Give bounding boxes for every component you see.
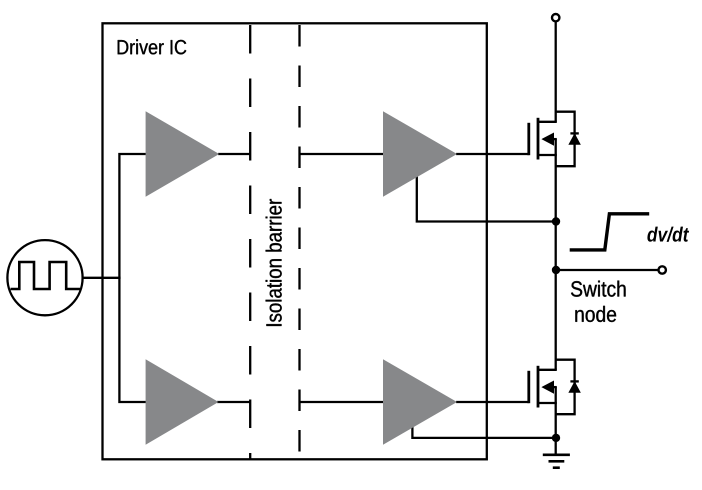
transistor Q1 (high-side MOSFET) bbox=[529, 112, 580, 167]
node: switch node junction dot bbox=[552, 266, 560, 274]
wire buffer D output to Q2 gate bbox=[456, 401, 529, 403]
wire switch node output bbox=[556, 269, 658, 271]
signal source circle bbox=[7, 240, 82, 315]
Q2 body arrow bbox=[543, 381, 554, 393]
wire buffer A output to barrier bbox=[218, 153, 251, 155]
wire kelvin return to Q1 source bbox=[417, 174, 556, 222]
buffer amplifier B (top right) bbox=[383, 111, 457, 197]
isolation barrier dashed line right bbox=[298, 25, 300, 459]
Q1 body arrow lead bbox=[553, 138, 557, 140]
dv/dt label bbox=[647, 227, 689, 242]
Q1 source stub bbox=[538, 154, 557, 156]
supply terminal bbox=[552, 14, 559, 21]
Q2 gate bar bbox=[527, 371, 530, 403]
Q1 gate bar bbox=[527, 123, 530, 155]
dv/dt step waveform bbox=[570, 214, 650, 250]
switch node terminal bbox=[659, 266, 666, 273]
Q2 body diode loop bbox=[556, 360, 575, 415]
Switch node label bbox=[571, 281, 626, 297]
node: Q2 source junction dot bbox=[552, 434, 560, 442]
Q1 body arrow bbox=[543, 133, 554, 145]
buffer amplifier A (top left) bbox=[146, 111, 220, 197]
ground bbox=[543, 455, 570, 468]
wire barrier to buffer B input bbox=[300, 153, 385, 155]
main vertical rail: Q1 source / switch node / Q2 drain bbox=[555, 139, 557, 370]
signal source square wave bbox=[11, 262, 81, 289]
Q2 channel bar bbox=[537, 366, 540, 408]
wire buffer C output to barrier bbox=[217, 401, 251, 403]
wire source to input node bbox=[83, 277, 121, 279]
transistor Q2 (low-side MOSFET) bbox=[529, 360, 580, 415]
Driver IC block outline bbox=[103, 23, 487, 459]
node: Q1 source junction dot bbox=[552, 217, 560, 225]
Q1 body diode triangle bbox=[569, 134, 580, 144]
wire barrier to buffer D input bbox=[300, 401, 385, 403]
Q1 body diode cathode bar bbox=[570, 132, 578, 134]
Q2 body arrow lead bbox=[553, 386, 557, 388]
buffer amplifier C (bottom left) bbox=[146, 359, 219, 445]
Q1 channel bar bbox=[537, 118, 540, 160]
isolation barrier dashed line left bbox=[249, 25, 251, 459]
Isolation barrier label bbox=[266, 199, 282, 326]
Q1 body diode loop bbox=[556, 112, 575, 167]
main vertical rail: drain lead of Q1 bbox=[555, 21, 557, 121]
Driver IC label bbox=[118, 39, 187, 54]
Q1 drain stub bbox=[538, 121, 557, 123]
Q2 drain stub bbox=[538, 369, 557, 371]
Q2 body diode triangle bbox=[569, 382, 580, 392]
Q2 body diode cathode bar bbox=[570, 380, 578, 382]
buffer amplifier D (bottom right) bbox=[383, 359, 457, 445]
wire buffer B output to Q1 gate bbox=[456, 153, 529, 155]
wire input bus vertical with branches to both buffers bbox=[119, 154, 146, 402]
main vertical rail: Q2 source to ground bbox=[555, 387, 557, 454]
wire kelvin return to Q2 source bbox=[412, 424, 556, 438]
Q2 source stub bbox=[538, 402, 557, 404]
